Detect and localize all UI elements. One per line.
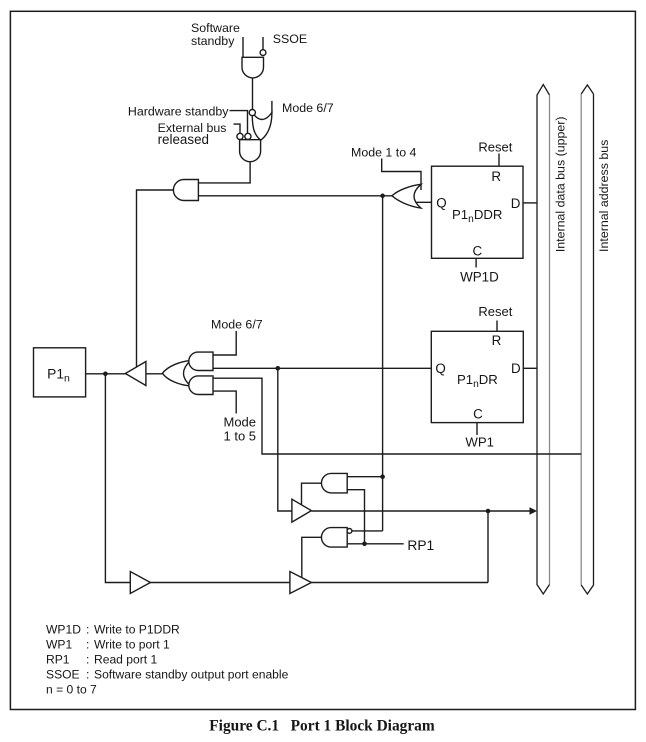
arrowhead into data bus (530, 507, 538, 515)
svg-text:RP1: RP1 (407, 538, 434, 553)
and gate G1 software standby/SSOE (242, 57, 264, 78)
wire G4 output to buffer B1 enable (137, 190, 174, 369)
or gate G6 pad data mux (162, 361, 190, 386)
wire WP1D to P1nDDR C (475, 258, 477, 267)
svg-text:Write to port 1: Write to port 1 (94, 638, 170, 652)
wire external bus released to G3 bubble (234, 124, 241, 133)
latch box P1nDDR (432, 166, 524, 258)
buffer B3 read pin (290, 572, 312, 594)
junction DR Q net (276, 366, 281, 371)
wire mode 1 to 4 into G5 (382, 159, 421, 191)
bubble SSOE inverted input (260, 50, 266, 56)
wire OE node to G10 input (347, 476, 382, 478)
svg-text:Figure C.1 Port 1 Block Diag: Figure C.1 Port 1 Block Diagram (209, 718, 435, 735)
svg-text:WP1D: WP1D (46, 623, 81, 637)
wire DR Q line to G7 (213, 367, 431, 369)
wire gate G1 output to G2 bubble (252, 78, 254, 110)
nand gate G9 read pin enable (321, 528, 347, 548)
wire G3 output to G4 input (198, 162, 250, 183)
svg-text::: : (86, 623, 89, 637)
wire DDR Q to G5 input (414, 201, 432, 203)
buffer B1 pad driver (125, 362, 146, 386)
wire RP1 input (347, 543, 404, 545)
wire vertical OE net node A down (382, 196, 384, 531)
wire buffer B4 output to buffer B3 input (150, 582, 290, 584)
wire P1n pad to buffer B1 (86, 373, 126, 375)
bubble external bus released inverted input (237, 133, 243, 139)
wire mode 6/7 to G7 input (213, 331, 236, 355)
wire address bus to G8 input (213, 378, 581, 454)
svg-text:R: R (491, 169, 501, 184)
wire software standby input (242, 37, 244, 58)
wire G10 output to buffer B2 enable (302, 483, 322, 508)
junction RP1 net (362, 542, 367, 547)
junction OE to G10 (380, 474, 385, 479)
svg-text:Reset: Reset (478, 304, 512, 319)
svg-text:Mode 6/7: Mode 6/7 (282, 101, 334, 115)
wire buffer B2 output to data bus arrow (311, 510, 531, 512)
wire reset to P1nDR (496, 321, 498, 332)
wire SSOE input (262, 37, 264, 50)
svg-text:Software standby output port e: Software standby output port enable (94, 668, 289, 682)
svg-text:Write to P1DDR: Write to P1DDR (94, 623, 180, 637)
svg-text:SSOE: SSOE (46, 668, 80, 682)
svg-text:Q: Q (435, 361, 445, 376)
svg-text:Mode 6/7: Mode 6/7 (211, 318, 263, 332)
svg-text:WP1D: WP1D (460, 270, 499, 285)
svg-text:standby: standby (191, 34, 235, 48)
svg-text:Internal data bus (upper): Internal data bus (upper) (554, 116, 568, 252)
svg-text:R: R (492, 333, 502, 348)
and gate G3 hardware standby/external bus (240, 140, 261, 162)
svg-text:n = 0 to 7: n = 0 to 7 (46, 683, 97, 697)
and gate G8 mode 1-5 address (189, 376, 213, 395)
svg-text:Mode 1 to 4: Mode 1 to 4 (351, 145, 417, 159)
and gate G4 output enable (173, 180, 198, 201)
bubble hardware standby inverted input (245, 133, 251, 139)
wire OR G6 tip to buffer B1 (146, 373, 163, 375)
wire WP1 to P1nDR C (476, 423, 478, 435)
wire mode 1 to 5 to G8 input (213, 391, 236, 413)
junction OE net (380, 194, 385, 199)
svg-text:RP1: RP1 (46, 653, 70, 667)
wire G10 input to RP1 net (347, 490, 364, 544)
or gate G5 DDR output enable (392, 184, 421, 208)
svg-text:Read port 1: Read port 1 (94, 653, 157, 667)
svg-text::: : (86, 668, 89, 682)
svg-text:WP1: WP1 (465, 435, 494, 450)
bubble G2 inverted input (249, 110, 255, 116)
svg-text:released: released (158, 132, 209, 147)
pad box P1n (34, 348, 86, 397)
svg-text:Reset: Reset (478, 139, 512, 154)
svg-text:SSOE: SSOE (273, 32, 307, 46)
or gate G2 standby/mode 6-7 (252, 113, 272, 141)
wire reset to P1nDDR (498, 154, 500, 167)
and gate G10 read DR enable (321, 473, 347, 493)
svg-text:Software: Software (191, 21, 240, 35)
wire DDR D to data bus (523, 202, 537, 204)
wire Q node down to buffer B2 input (278, 368, 292, 511)
wire G9 output to buffer B3 enable (302, 537, 322, 580)
bus: internal address bus hexagon (581, 85, 593, 594)
wire OE to G9 bubble (352, 530, 383, 532)
svg-text:Internal address bus: Internal address bus (597, 140, 611, 252)
wire output-enable net G5 to G4 (198, 195, 392, 197)
latch box P1nDR (431, 331, 523, 422)
buffer B2 read DR (292, 499, 312, 522)
wire node down from read net (487, 511, 489, 583)
svg-text:1 to 5: 1 to 5 (224, 428, 257, 443)
svg-text:D: D (511, 196, 521, 211)
svg-text:C: C (472, 243, 482, 258)
svg-text:C: C (473, 406, 483, 421)
svg-text:Q: Q (436, 196, 446, 211)
and gate G7 mode 6/7 DR (189, 352, 213, 370)
bus: internal data bus (upper) hexagon (537, 85, 550, 595)
wire DR D to data bus (523, 367, 537, 369)
svg-text::: : (86, 653, 89, 667)
svg-text:Hardware standby: Hardware standby (128, 104, 229, 118)
wire buffer B3 output (311, 582, 488, 584)
buffer B4 pin sense (130, 572, 150, 594)
svg-text:D: D (511, 361, 521, 376)
svg-text::: : (86, 638, 89, 652)
junction read net (486, 509, 491, 514)
wire hardware standby to G3 bubble (230, 111, 248, 134)
wire mode 6/7 input to G2 (271, 101, 273, 114)
svg-text:WP1: WP1 (46, 638, 72, 652)
bubble G9 inverted input (347, 529, 352, 534)
junction pad net (103, 372, 108, 377)
svg-text:Mode: Mode (224, 414, 257, 429)
wire pad node down to buffer B4 (105, 374, 130, 583)
